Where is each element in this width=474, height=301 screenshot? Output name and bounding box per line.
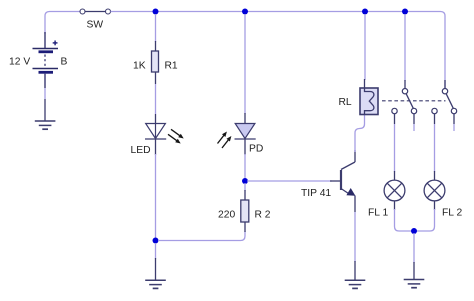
svg-text:PD: PD [249,144,263,155]
switch SW [80,9,111,31]
wire lamp FL2 to ground node [414,201,435,231]
wire switch 2 to lamp FL2 [434,114,436,180]
wire lamp FL1 to ground node [395,201,415,231]
wire node to ground [155,243,157,280]
stub wire switch 2 unused contact [453,114,455,131]
svg-text:LED: LED [131,145,151,156]
svg-text:RL: RL [339,97,352,108]
wire collector to relay [355,115,365,163]
relay switch 1 contacts [392,89,417,114]
node top of relay [362,9,368,15]
node PD/R2/base junction [242,178,248,184]
svg-text:220: 220 [218,210,235,221]
relay switch 2 contacts [432,89,457,114]
svg-text:B: B [61,57,68,68]
wire lamps node to ground [413,233,415,279]
wire switch 1 to lamp FL1 [394,114,396,180]
node top of relay switch 1 [402,9,408,15]
wire top node to relay [364,14,367,88]
wire LED to bottom node [155,139,157,241]
svg-text:1K: 1K [133,61,146,72]
ground below battery [35,99,56,129]
node top of PD [242,9,248,15]
wire node to R2 top [244,183,246,200]
svg-text:FL 2: FL 2 [442,208,462,219]
svg-text:SW: SW [87,20,104,31]
wire base node to transistor base [247,180,340,182]
wire battery top to switch SW [45,12,81,35]
wire switch to top-right corner [111,12,446,89]
dashed mechanical link relay to contacts [382,100,446,102]
ground below transistor [345,280,366,288]
node lamps junction [411,228,417,234]
node LED/R2/ground junction [153,238,159,244]
wire R1 to LED [155,72,157,124]
wire node to R1 [155,14,157,51]
wire PD to base node [244,139,246,181]
wire emitter to ground [354,196,356,280]
svg-text:R1: R1 [165,61,178,72]
svg-text:12 V: 12 V [9,57,30,68]
battery B 12V [9,32,68,88]
wire top-right corner to relay switch 2 [444,80,446,88]
lamp FL1 [368,180,405,218]
relay RL coil [339,88,379,115]
lamp FL2 [424,180,462,218]
wire battery to ground [44,88,46,99]
ground below LED chain [145,280,166,288]
svg-text:FL 1: FL 1 [368,208,388,219]
wire top node to relay switch 1 [404,14,406,88]
resistor R1 1K [133,51,178,72]
stub wire switch 1 unused contact [413,114,415,131]
node top of R1 [153,9,159,15]
photodiode PD [218,124,264,155]
wire bottom node to R2 [158,231,245,241]
resistor R2 220 [218,200,271,232]
svg-text:TIP 41: TIP 41 [301,188,331,199]
wire top node to PD [244,14,246,124]
svg-text:R 2: R 2 [255,210,271,221]
ground below lamps [404,280,425,288]
transistor Q1 TIP 41 [301,162,355,199]
LED D1 [131,124,184,157]
